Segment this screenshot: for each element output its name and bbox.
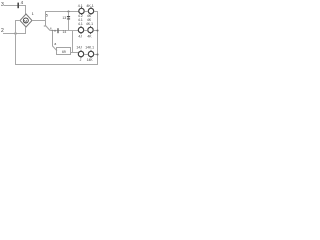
wire diamond right xyxy=(32,12,79,21)
junction B1 xyxy=(52,30,54,32)
bottom bus wire xyxy=(15,64,98,66)
lamp H6 xyxy=(88,51,93,56)
wire H6 to right bus xyxy=(94,54,98,56)
svg-text:14K: 14K xyxy=(87,58,94,62)
wire between H5 H6 xyxy=(84,54,88,56)
switch S1 pivot tick xyxy=(44,25,46,27)
wire V2 to switch S2 xyxy=(53,31,58,51)
lamp H5 xyxy=(78,51,83,56)
wire between H3 H4 xyxy=(84,30,88,32)
wire diamond left to left bus xyxy=(15,20,20,22)
rectifier bridge U1 xyxy=(20,14,32,27)
left bus wire xyxy=(15,21,17,65)
wire diamond bottom xyxy=(25,27,27,34)
wire from node 2 xyxy=(3,33,26,35)
contact K1 vertical wire xyxy=(68,12,70,31)
svg-text:14J: 14J xyxy=(76,45,82,49)
wire H2 to right bus xyxy=(94,11,98,13)
svg-text:14K.1: 14K.1 xyxy=(85,45,94,49)
junction node xyxy=(15,33,17,35)
junction A xyxy=(68,11,70,13)
wire coil to row3 xyxy=(71,52,79,54)
junction right bus row3 xyxy=(97,54,99,56)
lamp H1 xyxy=(79,8,84,13)
lamp H2 stubs xyxy=(90,7,92,15)
wire top-left from node 3 xyxy=(4,6,26,15)
wire V3 branch xyxy=(72,31,74,53)
switch S1 xyxy=(46,21,51,31)
svg-text:4K.1: 4K.1 xyxy=(86,4,93,8)
svg-text:5: 5 xyxy=(46,14,48,18)
wire between H1 H2 xyxy=(84,11,88,13)
junction dot on wire B xyxy=(54,30,56,32)
wire H4 to right bus xyxy=(93,30,98,32)
svg-text:4K: 4K xyxy=(87,35,92,39)
svg-text:14: 14 xyxy=(63,30,67,34)
wire B row2 feed xyxy=(50,30,78,32)
lamp H1 stubs xyxy=(81,7,83,15)
contact K1 marks xyxy=(67,16,70,17)
svg-text:3: 3 xyxy=(1,2,4,8)
svg-text:4J: 4J xyxy=(78,35,82,39)
lamp H6 stubs xyxy=(90,50,92,58)
svg-text:4K.1: 4K.1 xyxy=(86,22,93,26)
junction right bus row2 xyxy=(97,30,99,32)
lamp H2 xyxy=(88,8,93,13)
relay coil KM1 box xyxy=(57,48,71,55)
lamp H4 xyxy=(88,27,93,32)
right bus wire xyxy=(97,12,99,65)
svg-text:4.1: 4.1 xyxy=(78,22,83,26)
svg-text:a: a xyxy=(54,42,56,46)
lamp H3 stubs xyxy=(80,26,82,34)
svg-text:J: J xyxy=(80,58,82,62)
svg-text:4.1: 4.1 xyxy=(78,4,83,8)
motor symbol inside U1 xyxy=(23,18,28,23)
svg-text:69: 69 xyxy=(62,50,66,54)
fuse F1 xyxy=(17,3,19,9)
lamp H5 stubs xyxy=(80,50,82,58)
lamp H4 stubs xyxy=(90,26,92,34)
svg-text:M: M xyxy=(24,19,27,23)
fuse F2 xyxy=(57,28,58,33)
svg-text:13: 13 xyxy=(62,16,66,20)
lamp H3 xyxy=(78,27,83,32)
